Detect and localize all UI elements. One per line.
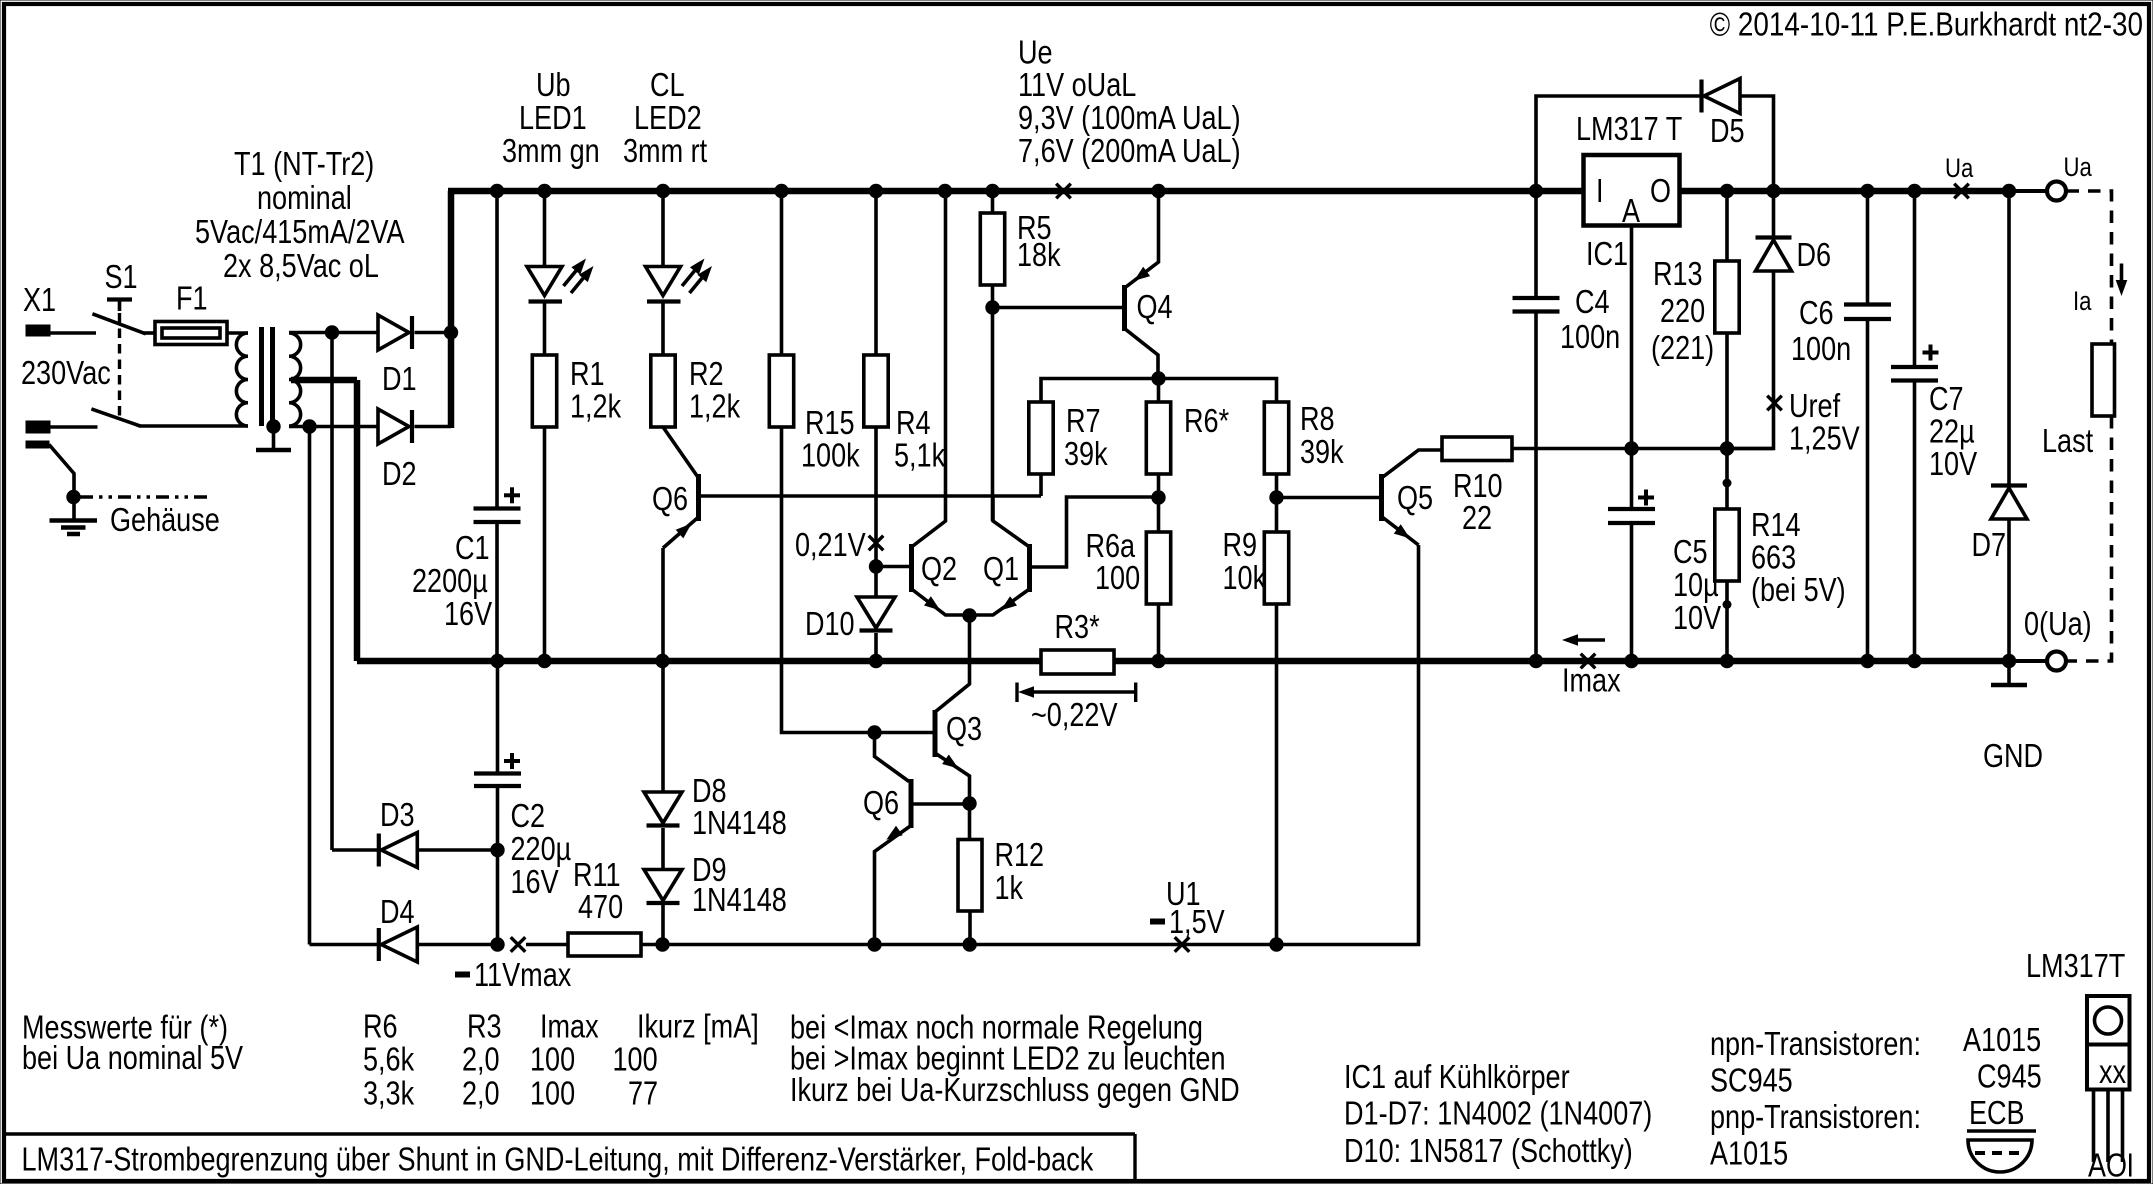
svg-text:D7: D7 xyxy=(1972,526,2007,563)
junction GND bus xyxy=(537,654,551,668)
svg-text:Ua: Ua xyxy=(1945,153,1974,183)
core ground bar xyxy=(256,448,291,453)
svg-text:2200µ: 2200µ xyxy=(412,562,488,599)
junction top bus xyxy=(774,184,788,198)
svg-text:ECB: ECB xyxy=(1969,1094,2025,1131)
wire Q6a base line xyxy=(700,494,1041,498)
title box xyxy=(4,1134,1135,1181)
junction top bus xyxy=(656,184,670,198)
core ground stub xyxy=(272,427,276,449)
svg-text:16V: 16V xyxy=(444,595,492,632)
resistor R13 xyxy=(1715,261,1739,333)
diode D5 xyxy=(1699,80,1703,113)
wire C4 bottom xyxy=(1534,312,1538,662)
svg-text:Q6: Q6 xyxy=(863,784,899,821)
wire U1 rail xyxy=(663,545,1419,945)
wire top +Ue bus right xyxy=(1680,188,2010,195)
junction Q2 base node xyxy=(869,559,883,573)
switch S1 contact mark xyxy=(107,297,132,301)
svg-text:Ia: Ia xyxy=(2073,286,2092,316)
LED1 arrows xyxy=(564,264,583,287)
wire R15 bottom xyxy=(782,427,934,733)
junction R12 bottom xyxy=(963,937,977,951)
svg-text:100: 100 xyxy=(530,1041,575,1078)
svg-text:© 2014-10-11 P.E.Burkhardt nt2: © 2014-10-11 P.E.Burkhardt nt2-30 xyxy=(1710,6,2143,43)
junction top bus xyxy=(490,184,504,198)
svg-text:7,6V (200mA UaL): 7,6V (200mA UaL) xyxy=(1018,132,1241,169)
svg-text:9,3V (100mA UaL): 9,3V (100mA UaL) xyxy=(1018,99,1241,136)
wire D1 cathode xyxy=(415,331,452,335)
capacitor C5 xyxy=(1608,507,1655,511)
diode D9 xyxy=(644,870,682,901)
measure mark Imax xyxy=(1581,654,1596,669)
wire GND bus to 0(Ua) terminal xyxy=(2009,659,2047,663)
wire LED1 to R1 xyxy=(543,302,547,356)
wire R1 bottom xyxy=(543,427,547,661)
transistor Q1 collector xyxy=(993,497,1030,547)
wire Q2 base xyxy=(876,565,910,569)
wire X1 N xyxy=(50,425,98,429)
transistor Q5 base bar xyxy=(1379,474,1384,521)
wire LED2 top xyxy=(661,194,665,267)
svg-text:C4: C4 xyxy=(1575,283,1610,320)
wire Q4 base xyxy=(993,306,1123,310)
svg-text:R4: R4 xyxy=(896,404,931,441)
wire R11 right xyxy=(641,943,663,947)
svg-text:1N4148: 1N4148 xyxy=(692,804,787,841)
svg-text:663: 663 xyxy=(1751,539,1796,576)
svg-text:Gehäuse: Gehäuse xyxy=(110,501,220,538)
current arrow Ia xyxy=(2120,264,2124,289)
svg-text:(bei 5V): (bei 5V) xyxy=(1751,571,1846,608)
svg-text:100: 100 xyxy=(530,1075,575,1112)
wire D5 right leg xyxy=(1740,96,1774,188)
svg-text:100n: 100n xyxy=(1791,330,1851,367)
diode D10 xyxy=(857,597,895,628)
wire R14 top xyxy=(1725,449,1729,510)
svg-text:2x 8,5Vac oL: 2x 8,5Vac oL xyxy=(223,247,379,284)
wire R6a bottom xyxy=(1157,604,1161,662)
svg-text:xx: xx xyxy=(2099,1053,2127,1090)
junction top bus xyxy=(1151,184,1165,198)
junction top bus xyxy=(537,184,551,198)
load dashed loop 2 xyxy=(2067,416,2112,661)
transistor Q6a collector xyxy=(663,427,699,478)
transformer core xyxy=(259,327,264,426)
svg-text:npn-Transistoren:: npn-Transistoren: xyxy=(1710,1025,1921,1062)
TO-92 outline xyxy=(1968,1140,2032,1172)
wire C7 top xyxy=(1913,194,1917,366)
resistor R1 xyxy=(532,355,556,427)
capacitor C6 xyxy=(1844,302,1891,306)
transformer T1 primary winding xyxy=(236,333,248,426)
wire Q1 base xyxy=(1032,497,1158,567)
TO-220 tab xyxy=(2087,996,2130,1045)
junction Q6b emitter xyxy=(867,937,881,951)
svg-text:Q4: Q4 xyxy=(1137,288,1173,325)
wire D4 right xyxy=(417,943,498,947)
wire R5 to Q1 collector xyxy=(991,308,995,522)
junction R11-D9 xyxy=(655,937,669,951)
junction D1 out xyxy=(444,325,458,339)
svg-text:C945: C945 xyxy=(1977,1058,2042,1095)
wire X1 L xyxy=(50,331,96,335)
svg-text:R9: R9 xyxy=(1223,526,1258,563)
svg-text:3mm gn: 3mm gn xyxy=(502,132,600,169)
svg-text:D1-D7: 1N4002 (1N4007): D1-D7: 1N4002 (1N4007) xyxy=(1344,1095,1652,1132)
svg-text:D2: D2 xyxy=(382,455,417,492)
capacitor C7 xyxy=(1891,365,1938,369)
svg-text:R14: R14 xyxy=(1751,506,1801,543)
capacitor C2 xyxy=(474,771,521,775)
svg-text:0,21V: 0,21V xyxy=(795,526,866,563)
LED LED2 xyxy=(646,267,681,296)
measure mark Ue xyxy=(1056,184,1071,199)
junction C2-D3 xyxy=(490,843,504,857)
junction GND bus xyxy=(1720,654,1734,668)
wire C6 bottom xyxy=(1866,319,1870,661)
resistor R8 xyxy=(1264,402,1288,474)
capacitor C1 xyxy=(474,506,521,510)
terminal X1 pin L xyxy=(26,325,50,336)
svg-text:Imax: Imax xyxy=(1562,662,1621,699)
svg-text:10V: 10V xyxy=(1673,599,1721,636)
switch S1 pole 1 xyxy=(92,314,145,334)
wire R5 top xyxy=(991,194,995,213)
svg-text:10k: 10k xyxy=(1223,559,1267,596)
transistor Q3 emitter xyxy=(935,753,970,801)
svg-text:10µ: 10µ xyxy=(1673,566,1719,603)
terminal 0(Ua) xyxy=(2047,652,2066,671)
svg-text:Q3: Q3 xyxy=(946,710,982,747)
svg-text:22µ: 22µ xyxy=(1929,413,1975,450)
wire R12 bottom xyxy=(968,911,972,945)
wire C1 top xyxy=(495,194,499,507)
svg-text:R12: R12 xyxy=(995,836,1045,873)
junction GND bus xyxy=(1624,654,1638,668)
svg-text:O: O xyxy=(1650,172,1671,209)
resistor R7 xyxy=(1029,402,1053,474)
measure bracket 0,22V xyxy=(1015,683,1018,703)
svg-text:SC945: SC945 xyxy=(1710,1062,1793,1099)
node R14 tap bottom xyxy=(1723,600,1732,609)
svg-text:2,0: 2,0 xyxy=(462,1075,500,1112)
junction top bus xyxy=(1907,184,1921,198)
junction top bus xyxy=(985,184,999,198)
svg-text:3mm rt: 3mm rt xyxy=(623,132,707,169)
junction GND bus xyxy=(655,654,669,668)
svg-text:22: 22 xyxy=(1462,499,1492,536)
junction common emitters xyxy=(962,608,976,622)
junction GND bus xyxy=(1529,654,1543,668)
transistor Q4 collector xyxy=(1125,329,1159,377)
transistor Q6a base bar xyxy=(696,474,701,521)
wire R4 top xyxy=(874,194,878,355)
wire top +Ue bus left xyxy=(448,188,1584,195)
label -1,5V xyxy=(1150,919,1165,925)
svg-text:1,2k: 1,2k xyxy=(689,388,741,425)
svg-text:230Vac: 230Vac xyxy=(21,354,111,391)
wire ADJ rail xyxy=(1512,447,1774,451)
svg-text:pnp-Transistoren:: pnp-Transistoren: xyxy=(1710,1098,1921,1135)
wire C2 bottom xyxy=(496,786,500,945)
svg-text:A: A xyxy=(2088,1147,2106,1184)
resistor R2 xyxy=(651,355,675,427)
polarity + C7 xyxy=(1923,351,1939,355)
svg-text:LM317 T: LM317 T xyxy=(1576,110,1682,147)
svg-text:~0,22V: ~0,22V xyxy=(1031,696,1118,733)
LED LED1 xyxy=(527,267,562,296)
svg-text:1,5V: 1,5V xyxy=(1169,903,1225,940)
svg-text:R2: R2 xyxy=(689,355,724,392)
svg-text:R15: R15 xyxy=(805,404,855,441)
svg-text:R3*: R3* xyxy=(1055,608,1100,645)
svg-text:1N4148: 1N4148 xyxy=(692,881,787,918)
transistor Q5 emitter xyxy=(1382,517,1419,546)
svg-text:Q6: Q6 xyxy=(652,480,688,517)
svg-text:R6*: R6* xyxy=(1184,402,1229,439)
TO-220 body xyxy=(2087,1045,2130,1090)
wire bottom tap down xyxy=(308,427,312,945)
junction top bus xyxy=(1766,184,1780,198)
junction Q6b base node xyxy=(962,796,976,810)
svg-text:220: 220 xyxy=(1660,292,1705,329)
resistor R6* xyxy=(1146,402,1170,474)
svg-text:R13: R13 xyxy=(1653,255,1703,292)
polarity + C1 xyxy=(504,493,520,497)
junction Q5 base node xyxy=(1269,490,1283,504)
svg-text:18k: 18k xyxy=(1017,236,1061,273)
wire D2 cathode xyxy=(415,425,452,429)
wire C5 top xyxy=(1630,449,1634,508)
junction top bus xyxy=(1529,184,1543,198)
svg-text:R1: R1 xyxy=(570,355,605,392)
junction PE xyxy=(66,490,80,504)
wire C5 bottom xyxy=(1630,523,1634,661)
wire D5 left leg xyxy=(1536,96,1702,188)
fuse F1 xyxy=(155,322,227,345)
svg-text:11V oUaL: 11V oUaL xyxy=(1018,66,1136,103)
wire C1 bottom xyxy=(495,522,499,661)
wire R13 top xyxy=(1725,194,1729,261)
chassis dash-dot line xyxy=(80,495,211,498)
svg-text:bei Ua nominal 5V: bei Ua nominal 5V xyxy=(22,1039,243,1076)
transistor Q6b base bar xyxy=(909,779,914,828)
svg-text:X1: X1 xyxy=(23,281,56,318)
svg-text:Ua: Ua xyxy=(2064,152,2093,182)
svg-text:C2: C2 xyxy=(511,797,546,834)
svg-text:F1: F1 xyxy=(176,280,208,317)
svg-text:Ue: Ue xyxy=(1018,34,1053,71)
svg-text:11Vmax: 11Vmax xyxy=(474,956,572,993)
wire R12 top xyxy=(968,804,972,840)
measure mark -11Vmax xyxy=(511,937,526,952)
junction ADJ C5 xyxy=(1624,441,1638,455)
junction Q3 base / Q6b collector xyxy=(867,725,881,739)
svg-text:I: I xyxy=(1596,172,1604,209)
svg-text:Ub: Ub xyxy=(536,66,571,103)
junction R9 to U1 rail xyxy=(1269,937,1283,951)
switch S1 pole 2 xyxy=(91,409,140,426)
terminal X1 pin N xyxy=(26,421,50,433)
wire top tap down xyxy=(330,333,334,850)
svg-text:R6: R6 xyxy=(363,1008,398,1045)
wire pole2 to T1 xyxy=(139,424,248,428)
wire D3 left xyxy=(332,848,379,852)
measure mark Ua xyxy=(1954,184,1969,199)
diode D6 xyxy=(1756,235,1792,239)
wire R8 to R9 xyxy=(1275,474,1279,532)
junction GND bus xyxy=(490,654,504,668)
resistor R12 xyxy=(958,840,982,912)
wire C2 top xyxy=(496,661,500,772)
transistor Q2 collector xyxy=(912,194,946,547)
svg-text:Imax: Imax xyxy=(540,1008,599,1045)
transistor Q1 base bar xyxy=(1027,544,1032,592)
wire emitter rail xyxy=(1041,379,1277,403)
transistor Q6a emitter xyxy=(663,517,699,548)
measure mark U1 xyxy=(1175,937,1190,952)
svg-text:5Vac/415mA/2VA: 5Vac/415mA/2VA xyxy=(195,213,405,250)
svg-text:LED1: LED1 xyxy=(519,99,587,136)
node R14 tap top xyxy=(1723,479,1732,488)
transistor Q3 base bar xyxy=(933,710,938,757)
wire Q6a emitter down xyxy=(661,548,665,792)
svg-text:D10: D10 xyxy=(805,605,855,642)
diode D7 xyxy=(1991,483,2027,487)
terminal X1 PE xyxy=(26,441,49,448)
junction top bus xyxy=(2002,184,2016,198)
polarity + C5 xyxy=(1638,496,1654,500)
resistor R14 xyxy=(1715,509,1739,581)
svg-text:I: I xyxy=(2127,1147,2135,1184)
junction core ground xyxy=(266,419,280,433)
wire Q6b collector xyxy=(875,733,910,782)
wire D7 top xyxy=(2007,194,2011,485)
svg-text:1,25V: 1,25V xyxy=(1789,420,1860,457)
diode D3 xyxy=(377,834,381,867)
wire R7 bottom lead xyxy=(1039,474,1043,496)
svg-text:LM317T: LM317T xyxy=(2026,947,2125,984)
svg-text:100: 100 xyxy=(613,1041,658,1078)
svg-text:3,3k: 3,3k xyxy=(363,1075,415,1112)
current arrow Imax xyxy=(1569,638,1605,642)
wire to R11 xyxy=(526,943,568,947)
transistor Q2 emitter xyxy=(912,589,970,615)
transistor Q1 emitter xyxy=(970,589,1030,615)
svg-text:Ikurz [mA]: Ikurz [mA] xyxy=(637,1008,759,1045)
svg-text:Ikurz bei Ua-Kurzschluss gegen: Ikurz bei Ua-Kurzschluss gegen GND xyxy=(790,1071,1240,1108)
svg-text:100: 100 xyxy=(1095,559,1140,596)
wire D8 to D9 xyxy=(661,828,665,870)
transistor Q4 base bar xyxy=(1122,285,1127,331)
wire D7 bottom xyxy=(2007,519,2011,661)
svg-text:220µ: 220µ xyxy=(511,830,572,867)
TO-220 legs xyxy=(2092,1090,2096,1163)
wire LED1 top xyxy=(543,194,547,267)
svg-text:nominal: nominal xyxy=(257,179,352,216)
wire R13 bottom xyxy=(1725,333,1729,449)
junction top bus xyxy=(938,184,952,198)
wire IC1 A lead xyxy=(1630,226,1634,449)
svg-text:Last: Last xyxy=(2042,422,2093,459)
junction GND bus xyxy=(1151,654,1165,668)
svg-text:77: 77 xyxy=(628,1075,658,1112)
wire R5 bottom xyxy=(991,285,995,308)
wire R6 top xyxy=(1157,379,1161,403)
transistor Q6b emitter xyxy=(875,826,912,945)
svg-text:0(Ua): 0(Ua) xyxy=(2024,605,2092,642)
junction Q1 base / R6a xyxy=(1151,490,1165,504)
svg-text:C1: C1 xyxy=(455,529,490,566)
svg-text:C7: C7 xyxy=(1929,380,1964,417)
svg-text:D6: D6 xyxy=(1797,236,1832,273)
label -11Vmax xyxy=(455,972,470,978)
op-amp U IC1 LM317 box xyxy=(1584,155,1680,226)
ground PE xyxy=(50,518,98,523)
svg-text:D10: 1N5817 (Schottky): D10: 1N5817 (Schottky) xyxy=(1344,1132,1633,1169)
terminal Ua xyxy=(2047,182,2066,201)
measure mark Uref xyxy=(1767,396,1782,411)
polarity + C2 xyxy=(504,759,520,763)
wire Q5 base xyxy=(1277,496,1380,500)
svg-text:D1: D1 xyxy=(382,360,417,397)
wire D9 bottom xyxy=(661,905,665,945)
svg-text:2,0: 2,0 xyxy=(462,1041,500,1078)
svg-text:Q1: Q1 xyxy=(983,550,1019,587)
svg-text:LED2: LED2 xyxy=(634,99,702,136)
resistor Last xyxy=(2092,344,2115,416)
wire D4 left xyxy=(310,943,379,947)
wire D6 top xyxy=(1772,194,1776,237)
junction top tap xyxy=(325,325,339,339)
resistor R6a xyxy=(1146,532,1170,604)
resistor R9 xyxy=(1264,532,1288,604)
svg-text:R3: R3 xyxy=(467,1008,502,1045)
svg-text:39k: 39k xyxy=(1064,435,1108,472)
wire D6 bottom xyxy=(1727,271,1774,449)
svg-text:1,2k: 1,2k xyxy=(570,388,622,425)
svg-text:Uref: Uref xyxy=(1789,387,1841,424)
svg-text:39k: 39k xyxy=(1300,433,1344,470)
svg-text:16V: 16V xyxy=(511,863,559,900)
wire D3 right xyxy=(417,848,498,852)
svg-text:LM317-Strombegrenzung über Shu: LM317-Strombegrenzung über Shunt in GND-… xyxy=(22,1141,1094,1178)
svg-text:A: A xyxy=(1622,192,1640,229)
capacitor C4 xyxy=(1513,296,1560,300)
resistor R4 xyxy=(864,355,888,427)
resistor R10 xyxy=(1442,437,1512,461)
svg-text:R7: R7 xyxy=(1066,402,1101,439)
junction top bus xyxy=(1720,184,1734,198)
svg-text:A1015: A1015 xyxy=(1710,1135,1788,1172)
svg-text:470: 470 xyxy=(578,888,623,925)
svg-text:GND: GND xyxy=(1983,737,2043,774)
wire R4 bottom xyxy=(874,427,878,597)
junction top bus xyxy=(869,184,883,198)
svg-text:Q2: Q2 xyxy=(921,550,957,587)
junction GND bus xyxy=(2002,654,2016,668)
measure mark 0,21V xyxy=(869,536,884,551)
svg-text:10V: 10V xyxy=(1929,445,1977,482)
svg-text:A1015: A1015 xyxy=(1963,1021,2041,1058)
wire secondary bottom tap xyxy=(289,425,378,429)
svg-text:CL: CL xyxy=(650,66,685,103)
wire D10 bottom xyxy=(874,633,878,661)
wire rectifier output riser xyxy=(448,191,455,428)
junction GND bus xyxy=(1860,654,1874,668)
svg-text:1k: 1k xyxy=(995,869,1024,906)
